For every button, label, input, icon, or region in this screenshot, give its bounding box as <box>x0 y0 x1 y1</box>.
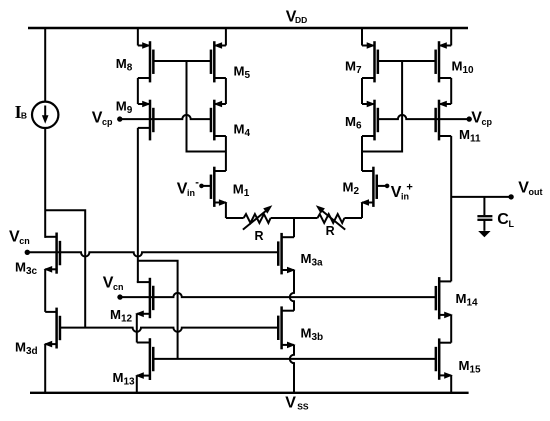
svg-text:7: 7 <box>356 65 362 76</box>
wire Vcp line right with hop <box>378 115 469 119</box>
label M1 <box>233 182 250 200</box>
svg-text:M: M <box>116 56 127 71</box>
wire output line <box>451 196 511 198</box>
svg-text:R: R <box>326 224 335 238</box>
svg-text:C: C <box>497 211 509 228</box>
transistor M3a <box>278 233 295 275</box>
wire M1 source to resistor R left <box>226 217 244 219</box>
svg-text:cn: cn <box>113 282 124 292</box>
wire VDD to M10 source <box>450 28 452 46</box>
wire jog IB node to Vcn vertical <box>45 210 85 327</box>
wire M3d source to VSS <box>44 344 46 393</box>
label M4 <box>234 122 251 140</box>
label M13 <box>113 370 136 388</box>
wire resistor to M2 source <box>344 217 362 219</box>
node Vout terminal dot <box>508 194 513 199</box>
wire M12 source to M13 drain <box>136 314 138 343</box>
svg-text:9: 9 <box>127 105 133 116</box>
label Vin+ <box>391 181 413 201</box>
svg-text:M: M <box>15 340 26 355</box>
svg-text:M: M <box>110 307 121 322</box>
transistor M15 <box>436 338 453 379</box>
svg-text:M: M <box>459 358 470 373</box>
wire VDD to M8 source <box>137 28 139 46</box>
wire M11 drain down to M14 drain (output node) <box>450 136 452 281</box>
wire right gate node down to cascode node <box>362 61 402 152</box>
label M3b <box>301 326 324 344</box>
wire M15 source to VSS <box>450 375 452 392</box>
svg-text:cn: cn <box>19 236 30 246</box>
label Vin- <box>177 176 199 198</box>
wire Vcn line with hops <box>27 252 278 256</box>
transistor M4 <box>211 100 226 141</box>
svg-text:M: M <box>345 59 356 74</box>
svg-text:5: 5 <box>245 70 251 81</box>
transistor M5 <box>211 41 226 82</box>
label R left <box>255 229 264 243</box>
transistor M13 <box>135 338 153 380</box>
wire output to CL <box>483 197 485 215</box>
resistor R left <box>244 214 271 223</box>
label VDD <box>286 9 307 26</box>
svg-text:M: M <box>234 122 245 137</box>
transistor M8 <box>138 41 154 82</box>
svg-text:cp: cp <box>102 117 113 127</box>
node Vin- terminal dot <box>199 184 204 189</box>
svg-text:out: out <box>529 187 543 197</box>
svg-text:6: 6 <box>356 121 362 132</box>
label M15 <box>459 358 482 376</box>
wire VDD to M5 source <box>225 28 227 46</box>
wire M13-M15 gate line <box>153 358 436 360</box>
svg-text:11: 11 <box>470 133 481 144</box>
svg-text:2: 2 <box>354 186 360 197</box>
wire M2 source down leg <box>361 203 363 219</box>
arrow over resistor R right <box>316 205 345 229</box>
svg-text:M: M <box>452 59 463 74</box>
label Vcn2 <box>103 275 124 293</box>
wire M10 drain to M11 source <box>450 78 452 104</box>
label CL <box>497 211 514 229</box>
svg-text:M: M <box>343 180 354 195</box>
svg-text:M: M <box>233 182 244 197</box>
svg-text:M: M <box>15 260 26 275</box>
label M7 <box>345 59 362 77</box>
label M8 <box>116 56 133 74</box>
svg-text:DD: DD <box>295 15 307 25</box>
label M5 <box>234 64 251 82</box>
svg-text:14: 14 <box>467 298 479 309</box>
svg-text:4: 4 <box>245 128 251 139</box>
node Vcp left terminal dot <box>117 116 122 121</box>
svg-text:in: in <box>187 188 195 198</box>
svg-text:SS: SS <box>297 402 309 412</box>
node Vcp right terminal dot <box>467 116 472 121</box>
label M11 <box>459 127 481 145</box>
wire branch to M13 gate <box>138 261 178 359</box>
wire M3a source to M3b drain hop over Vcn2 <box>290 270 294 311</box>
svg-text:M: M <box>116 98 127 113</box>
wire M2 gate stub <box>377 185 387 187</box>
wire gate node down to cascode node <box>187 61 226 152</box>
label Vcn left <box>9 229 30 247</box>
wire Vcp line left with hop <box>120 115 211 119</box>
wire M13 source to VSS <box>136 376 138 393</box>
svg-text:10: 10 <box>463 65 475 76</box>
svg-text:3c: 3c <box>26 266 38 277</box>
wire between resistors <box>271 217 318 219</box>
wire M4 drain to M1 drain <box>225 136 227 171</box>
label Vcp left <box>92 110 113 128</box>
wire M3c source to M3d drain <box>44 269 46 312</box>
label R right <box>326 224 335 238</box>
transistor M9 <box>138 100 154 141</box>
capacitor CL <box>477 216 492 237</box>
wire M1 gate stub <box>202 185 212 187</box>
wire M7 drain to M6 source <box>361 78 363 104</box>
wire M9 drain down to M12 drain <box>137 128 139 282</box>
svg-text:M: M <box>234 64 245 79</box>
current source IB <box>32 102 58 128</box>
svg-text:L: L <box>509 219 515 229</box>
label M9 <box>116 98 133 116</box>
svg-text:15: 15 <box>470 365 482 376</box>
svg-text:M: M <box>456 291 467 306</box>
svg-text:12: 12 <box>121 314 133 325</box>
transistor M12 <box>135 278 153 318</box>
transistor M7 <box>362 41 378 82</box>
svg-text:cp: cp <box>482 117 493 127</box>
label M12 <box>110 307 133 325</box>
svg-text:V: V <box>285 395 296 412</box>
resistor R right <box>318 214 345 223</box>
wire tail node down to M3a drain <box>293 218 295 237</box>
label M10 <box>452 59 475 77</box>
svg-text:3d: 3d <box>26 346 38 357</box>
label IB <box>15 102 27 122</box>
label M3c <box>15 260 38 278</box>
wire M3b source to VSS hop over gate line <box>290 345 294 393</box>
wire M3d gate line to M3b gate with hops <box>60 328 278 332</box>
label M3a <box>301 251 324 269</box>
transistor M3c <box>44 233 60 274</box>
wire IB to M3c drain <box>44 128 46 238</box>
svg-text:M: M <box>113 370 124 385</box>
transistor M14 <box>436 277 453 319</box>
wire M14 source to M15 drain <box>450 315 452 343</box>
svg-text:+: + <box>406 181 412 193</box>
transistor M6 <box>362 100 378 141</box>
VSS power rail <box>30 392 469 394</box>
label M3d <box>15 340 38 358</box>
VDD power rail <box>28 27 468 29</box>
svg-text:3a: 3a <box>312 258 324 269</box>
label Vout <box>518 179 542 197</box>
label Vcp right <box>471 110 492 128</box>
wire M5 drain to M4 source <box>225 78 227 104</box>
transistor M2 <box>360 167 376 207</box>
transistor M11 <box>436 100 452 141</box>
wire M7-M10 gate line <box>378 60 436 62</box>
label M6 <box>345 114 362 132</box>
wire M6 drain to M2 drain <box>361 136 363 171</box>
wire M8 drain to M9 source <box>137 78 139 104</box>
svg-text:-: - <box>195 176 199 188</box>
transistor M1 <box>211 167 228 207</box>
wire VDD to M7 source <box>361 28 363 46</box>
node Vcn terminal dot <box>25 250 30 255</box>
svg-text:13: 13 <box>124 377 136 388</box>
node Vcn2 terminal dot <box>117 294 122 299</box>
label M14 <box>456 291 479 309</box>
wire VDD rail down to IB <box>44 28 46 102</box>
wire M1 source down to resistor line <box>225 203 227 219</box>
node Vin+ terminal dot <box>385 184 390 189</box>
transistor M10 <box>436 41 452 82</box>
wire Vcn2 line to M14 gate with hop <box>120 293 436 297</box>
svg-text:8: 8 <box>127 62 133 73</box>
label M2 <box>343 180 360 198</box>
label VSS <box>285 395 309 412</box>
svg-text:3b: 3b <box>312 332 324 343</box>
svg-text:M: M <box>345 114 356 129</box>
svg-text:M: M <box>301 326 312 341</box>
svg-text:B: B <box>21 110 27 120</box>
svg-text:1: 1 <box>244 188 250 199</box>
wire M8-M5 gate line <box>153 60 211 62</box>
transistor M3d <box>44 308 60 349</box>
svg-text:R: R <box>255 229 264 243</box>
svg-text:M: M <box>301 251 312 266</box>
svg-text:M: M <box>459 127 470 142</box>
arrow over resistor R left <box>243 205 272 229</box>
transistor M3b <box>278 306 295 349</box>
